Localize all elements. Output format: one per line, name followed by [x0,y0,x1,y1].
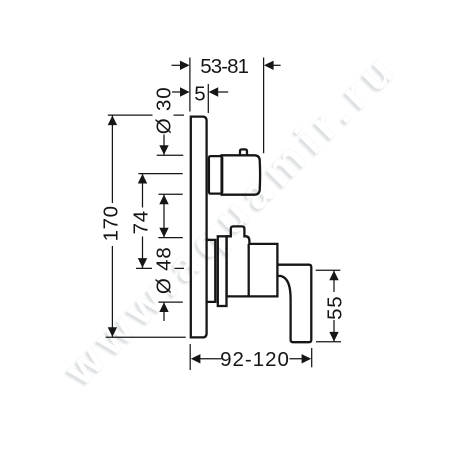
lever handle [277,265,311,343]
dim O30/O48 shared line [163,135,165,322]
ext line 92-120 right [311,348,313,367]
arrowhead 5 left [180,87,190,96]
tick plate bottom [106,336,186,338]
tick knob top [157,154,184,156]
thermostat sleeve [209,156,222,194]
lower rear flange strip [208,240,216,302]
ext line plate front [207,84,209,113]
ext line wall face top [189,58,191,112]
knob nub [240,149,247,155]
dim 5 tails [172,91,181,93]
svg-text:5: 5 [194,83,205,106]
tick 74 top [138,173,182,175]
arrowhead O30 bottom [159,195,168,205]
tick O48 top [158,237,183,239]
svg-text:55: 55 [324,295,347,319]
arrowhead 92-120 right [302,354,312,363]
arrowhead 5 right [209,87,219,96]
arrowhead 55 bottom [329,332,338,342]
arrowhead O30 top [159,145,168,155]
arrowhead 170 top [108,116,117,126]
ext line knob front [263,58,265,154]
plate (escutcheon side view) [191,117,207,338]
tick 55 bottom [316,341,341,343]
lower front flange strip [218,236,227,306]
arrowhead 53-81 right [264,61,274,70]
arrowhead 53-81 left [180,61,190,70]
dim 170 line [111,115,113,337]
tick 74 bottom [136,267,184,269]
dim 55 line [333,270,335,342]
dim 53-81 tails [172,64,182,66]
valve body with nub [227,226,278,296]
dim 74 line [142,174,144,268]
arrowhead 74 top [138,174,147,184]
dim 92-120 line [196,358,302,360]
tick plate top [108,114,184,116]
svg-text:74: 74 [130,210,153,234]
arrowhead O48 bottom [159,302,168,312]
arrowhead 55 top [329,271,338,281]
tick O48 bottom [158,301,183,303]
thermostat knob body [222,155,261,194]
tick 55 top [316,269,341,271]
svg-text:Ø 48: Ø 48 [153,246,176,294]
svg-text:Ø 30: Ø 30 [153,87,176,135]
svg-text:92-120: 92-120 [220,348,290,371]
arrowhead 92-120 left [191,354,201,363]
arrowhead 74 bottom [138,258,147,268]
arrowhead O48 top [159,228,168,238]
tick knob bottom [159,193,183,195]
arrowhead 170 bottom [108,327,117,337]
svg-text:53-81: 53-81 [200,55,248,78]
body internal line [248,244,250,297]
ext line 92-120 left [189,344,191,370]
svg-text:170: 170 [99,205,122,241]
